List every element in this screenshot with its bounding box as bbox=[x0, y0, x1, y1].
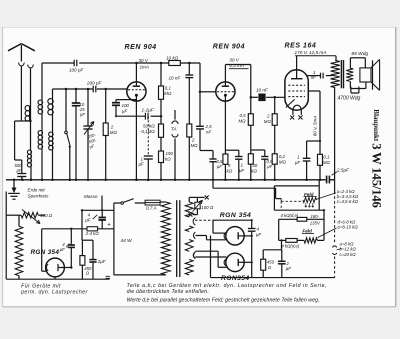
svg-text:pF: pF bbox=[79, 112, 85, 117]
svg-text:4 kΩ(d,e): 4 kΩ(d,e) bbox=[281, 213, 299, 218]
svg-text:150: 150 bbox=[166, 151, 174, 156]
svg-text:2: 2 bbox=[191, 138, 195, 143]
svg-text:0,3 mA: 0,3 mA bbox=[229, 63, 244, 68]
svg-text:135V: 135V bbox=[310, 221, 321, 226]
svg-text:MΩ: MΩ bbox=[191, 143, 199, 148]
svg-text:100 Ω: 100 Ω bbox=[201, 205, 214, 210]
svg-text:µF: µF bbox=[85, 218, 91, 223]
svg-text:REN 904: REN 904 bbox=[125, 44, 157, 51]
svg-text:0,5: 0,5 bbox=[240, 113, 247, 118]
svg-text:RES 164: RES 164 bbox=[285, 42, 317, 49]
svg-text:Blaupunkt: Blaupunkt bbox=[372, 109, 380, 142]
svg-text:REN 904: REN 904 bbox=[213, 43, 245, 50]
svg-text:85 Wdg: 85 Wdg bbox=[352, 51, 369, 57]
svg-text:µF: µF bbox=[256, 232, 262, 237]
svg-text:pF: pF bbox=[88, 143, 96, 150]
svg-text:10 nF: 10 nF bbox=[256, 88, 269, 93]
svg-text:2µF: 2µF bbox=[97, 259, 106, 264]
svg-text:µF: µF bbox=[286, 266, 292, 271]
svg-text:0,1: 0,1 bbox=[323, 154, 330, 159]
svg-text:µF: µF bbox=[60, 247, 66, 252]
svg-text:MΩ: MΩ bbox=[110, 130, 118, 135]
svg-text:Werte d,e bei parallel geschal: Werte d,e bei parallel geschaltetem Feld… bbox=[127, 298, 320, 304]
svg-text:2: 2 bbox=[266, 114, 270, 119]
svg-text:RGN 354: RGN 354 bbox=[220, 212, 251, 219]
svg-text:MΩ: MΩ bbox=[239, 119, 247, 124]
svg-text:MΩ: MΩ bbox=[164, 91, 172, 96]
svg-text:µF: µF bbox=[122, 108, 128, 113]
svg-text:2: 2 bbox=[110, 125, 114, 130]
svg-text:Feld: Feld bbox=[302, 228, 312, 233]
svg-text:TA: TA bbox=[171, 127, 177, 133]
svg-text:+: + bbox=[107, 223, 111, 229]
svg-text:4 kΩ(d,e): 4 kΩ(d,e) bbox=[281, 243, 299, 248]
svg-text:MΩ: MΩ bbox=[264, 119, 272, 124]
svg-text:1mA: 1mA bbox=[140, 65, 149, 70]
svg-text:µF: µF bbox=[217, 164, 222, 169]
svg-text:kΩ: kΩ bbox=[165, 157, 171, 162]
svg-text:2: 2 bbox=[285, 261, 289, 266]
svg-text:RGN 354: RGN 354 bbox=[31, 249, 60, 256]
svg-text:180-: 180- bbox=[311, 214, 320, 219]
svg-text:kΩ: kΩ bbox=[227, 169, 233, 174]
svg-text:Ω: Ω bbox=[86, 271, 90, 276]
svg-text:100 Ω: 100 Ω bbox=[40, 213, 53, 218]
svg-text:1-2µF: 1-2µF bbox=[142, 108, 155, 113]
svg-text:0,7 A: 0,7 A bbox=[146, 206, 157, 211]
svg-text:d=6-8 kΩ: d=6-8 kΩ bbox=[338, 219, 356, 224]
svg-text:Erde mit: Erde mit bbox=[28, 188, 46, 193]
svg-text:MΩ: MΩ bbox=[279, 160, 287, 165]
svg-text:µF: µF bbox=[139, 162, 144, 167]
svg-text:30: 30 bbox=[252, 163, 257, 168]
svg-text:MΩ: MΩ bbox=[323, 160, 331, 165]
svg-text:5: 5 bbox=[228, 163, 231, 168]
svg-text:3 W 145/146: 3 W 145/146 bbox=[369, 143, 383, 207]
svg-text:30 V: 30 V bbox=[139, 58, 149, 63]
svg-text:e=8-10 kΩ: e=8-10 kΩ bbox=[338, 225, 359, 230]
svg-text:44 W: 44 W bbox=[121, 238, 133, 244]
svg-text:2,5: 2,5 bbox=[205, 124, 213, 129]
svg-text:pF: pF bbox=[16, 168, 22, 173]
svg-text:50 kΩ: 50 kΩ bbox=[143, 124, 155, 129]
svg-text:1: 1 bbox=[297, 155, 300, 160]
svg-text:nF: nF bbox=[311, 75, 316, 80]
svg-text:c=4,5-6 kΩ: c=4,5-6 kΩ bbox=[337, 199, 359, 204]
svg-text:0,2: 0,2 bbox=[279, 154, 286, 159]
svg-text:b=12 kΩ: b=12 kΩ bbox=[340, 247, 357, 252]
svg-text:µF: µF bbox=[239, 168, 245, 173]
svg-text:170 V, 12,5 mA: 170 V, 12,5 mA bbox=[295, 50, 327, 55]
svg-text:2-4 kΩ: 2-4 kΩ bbox=[85, 231, 100, 236]
svg-text:die überbrückten Teile entfall: die überbrückten Teile entfallen. bbox=[127, 289, 210, 295]
svg-text:kΩ: kΩ bbox=[251, 169, 257, 174]
svg-text:10 kΩ: 10 kΩ bbox=[166, 56, 179, 61]
svg-text:100 pF: 100 pF bbox=[69, 68, 84, 73]
svg-text:4700 Wdg: 4700 Wdg bbox=[338, 95, 361, 101]
svg-text:450: 450 bbox=[267, 260, 275, 265]
svg-text:0,1: 0,1 bbox=[165, 86, 172, 91]
svg-text:4: 4 bbox=[257, 227, 260, 232]
svg-text:80 V, 5mA: 80 V, 5mA bbox=[313, 116, 318, 136]
svg-text:Feld: Feld bbox=[304, 192, 314, 197]
svg-text:perm. dyn. Lautsprecher: perm. dyn. Lautsprecher bbox=[20, 289, 88, 295]
svg-text:30 V: 30 V bbox=[229, 58, 239, 63]
svg-text:200 pF: 200 pF bbox=[86, 81, 102, 86]
svg-text:nF: nF bbox=[206, 130, 211, 135]
svg-text:Ω: Ω bbox=[268, 265, 272, 270]
svg-text:-0,1MΩ: -0,1MΩ bbox=[140, 129, 155, 134]
svg-text:a=8 kΩ: a=8 kΩ bbox=[340, 241, 355, 246]
svg-text:RGN354: RGN354 bbox=[221, 275, 250, 282]
svg-text:1: 1 bbox=[241, 163, 244, 168]
svg-text:Sperrkreis: Sperrkreis bbox=[28, 193, 50, 198]
svg-text:100: 100 bbox=[122, 103, 130, 108]
svg-text:µF: µF bbox=[295, 160, 301, 165]
svg-text:10 nF: 10 nF bbox=[169, 76, 182, 81]
svg-text:Masse: Masse bbox=[84, 194, 98, 199]
svg-text:c=20 kΩ: c=20 kΩ bbox=[340, 252, 357, 257]
svg-text:2,5µF: 2,5µF bbox=[336, 168, 350, 173]
